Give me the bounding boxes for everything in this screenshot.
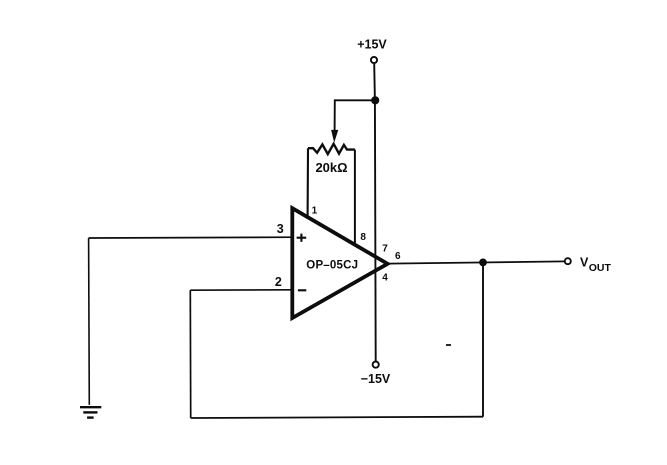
svg-text:+15V: +15V [357, 37, 387, 51]
wire feedback bottom [191, 417, 483, 418]
svg-text:V: V [580, 256, 589, 270]
wire output pin 6 [388, 261, 565, 263]
wire left drop to ground [88, 238, 91, 405]
svg-text:4: 4 [382, 272, 388, 283]
wire inverting input pin 2 [190, 289, 292, 291]
terminal -15V [373, 362, 379, 368]
junction dot V+ rail [371, 96, 379, 104]
op-amp U1 OP-05CJ [292, 208, 387, 318]
terminal +15V [371, 57, 377, 63]
svg-text:OUT: OUT [589, 262, 612, 274]
svg-text:1: 1 [312, 205, 318, 216]
wire junction to wiper [335, 100, 376, 130]
junction dot output node [479, 259, 487, 267]
svg-text:7: 7 [382, 244, 388, 255]
wire pot right leg to pin 8 [354, 150, 356, 245]
scan speck artifact [446, 344, 451, 346]
wire pot left leg to pin 1 [307, 148, 309, 217]
svg-text:8: 8 [360, 232, 366, 243]
svg-text:3: 3 [277, 222, 284, 236]
ground [80, 407, 101, 417]
label VOUT [580, 256, 611, 274]
wire noninverting input pin 3 [89, 236, 293, 239]
svg-text:2: 2 [275, 275, 282, 289]
minus input symbol [298, 289, 306, 291]
svg-text:−15V: −15V [361, 372, 391, 386]
supply rail wire through pins 7 and 4 [374, 100, 377, 361]
wire feedback right vertical [482, 262, 484, 416]
terminal VOUT [565, 258, 571, 264]
svg-text:20kΩ: 20kΩ [315, 160, 347, 175]
wiper arrowhead [331, 130, 338, 143]
plus input symbol [297, 234, 307, 242]
svg-text:6: 6 [395, 251, 401, 262]
wire feedback left vertical [189, 290, 191, 418]
wire +15V terminal to junction [373, 64, 376, 100]
potentiometer 20k zigzag [308, 144, 355, 154]
svg-text:OP–05CJ: OP–05CJ [306, 260, 358, 272]
